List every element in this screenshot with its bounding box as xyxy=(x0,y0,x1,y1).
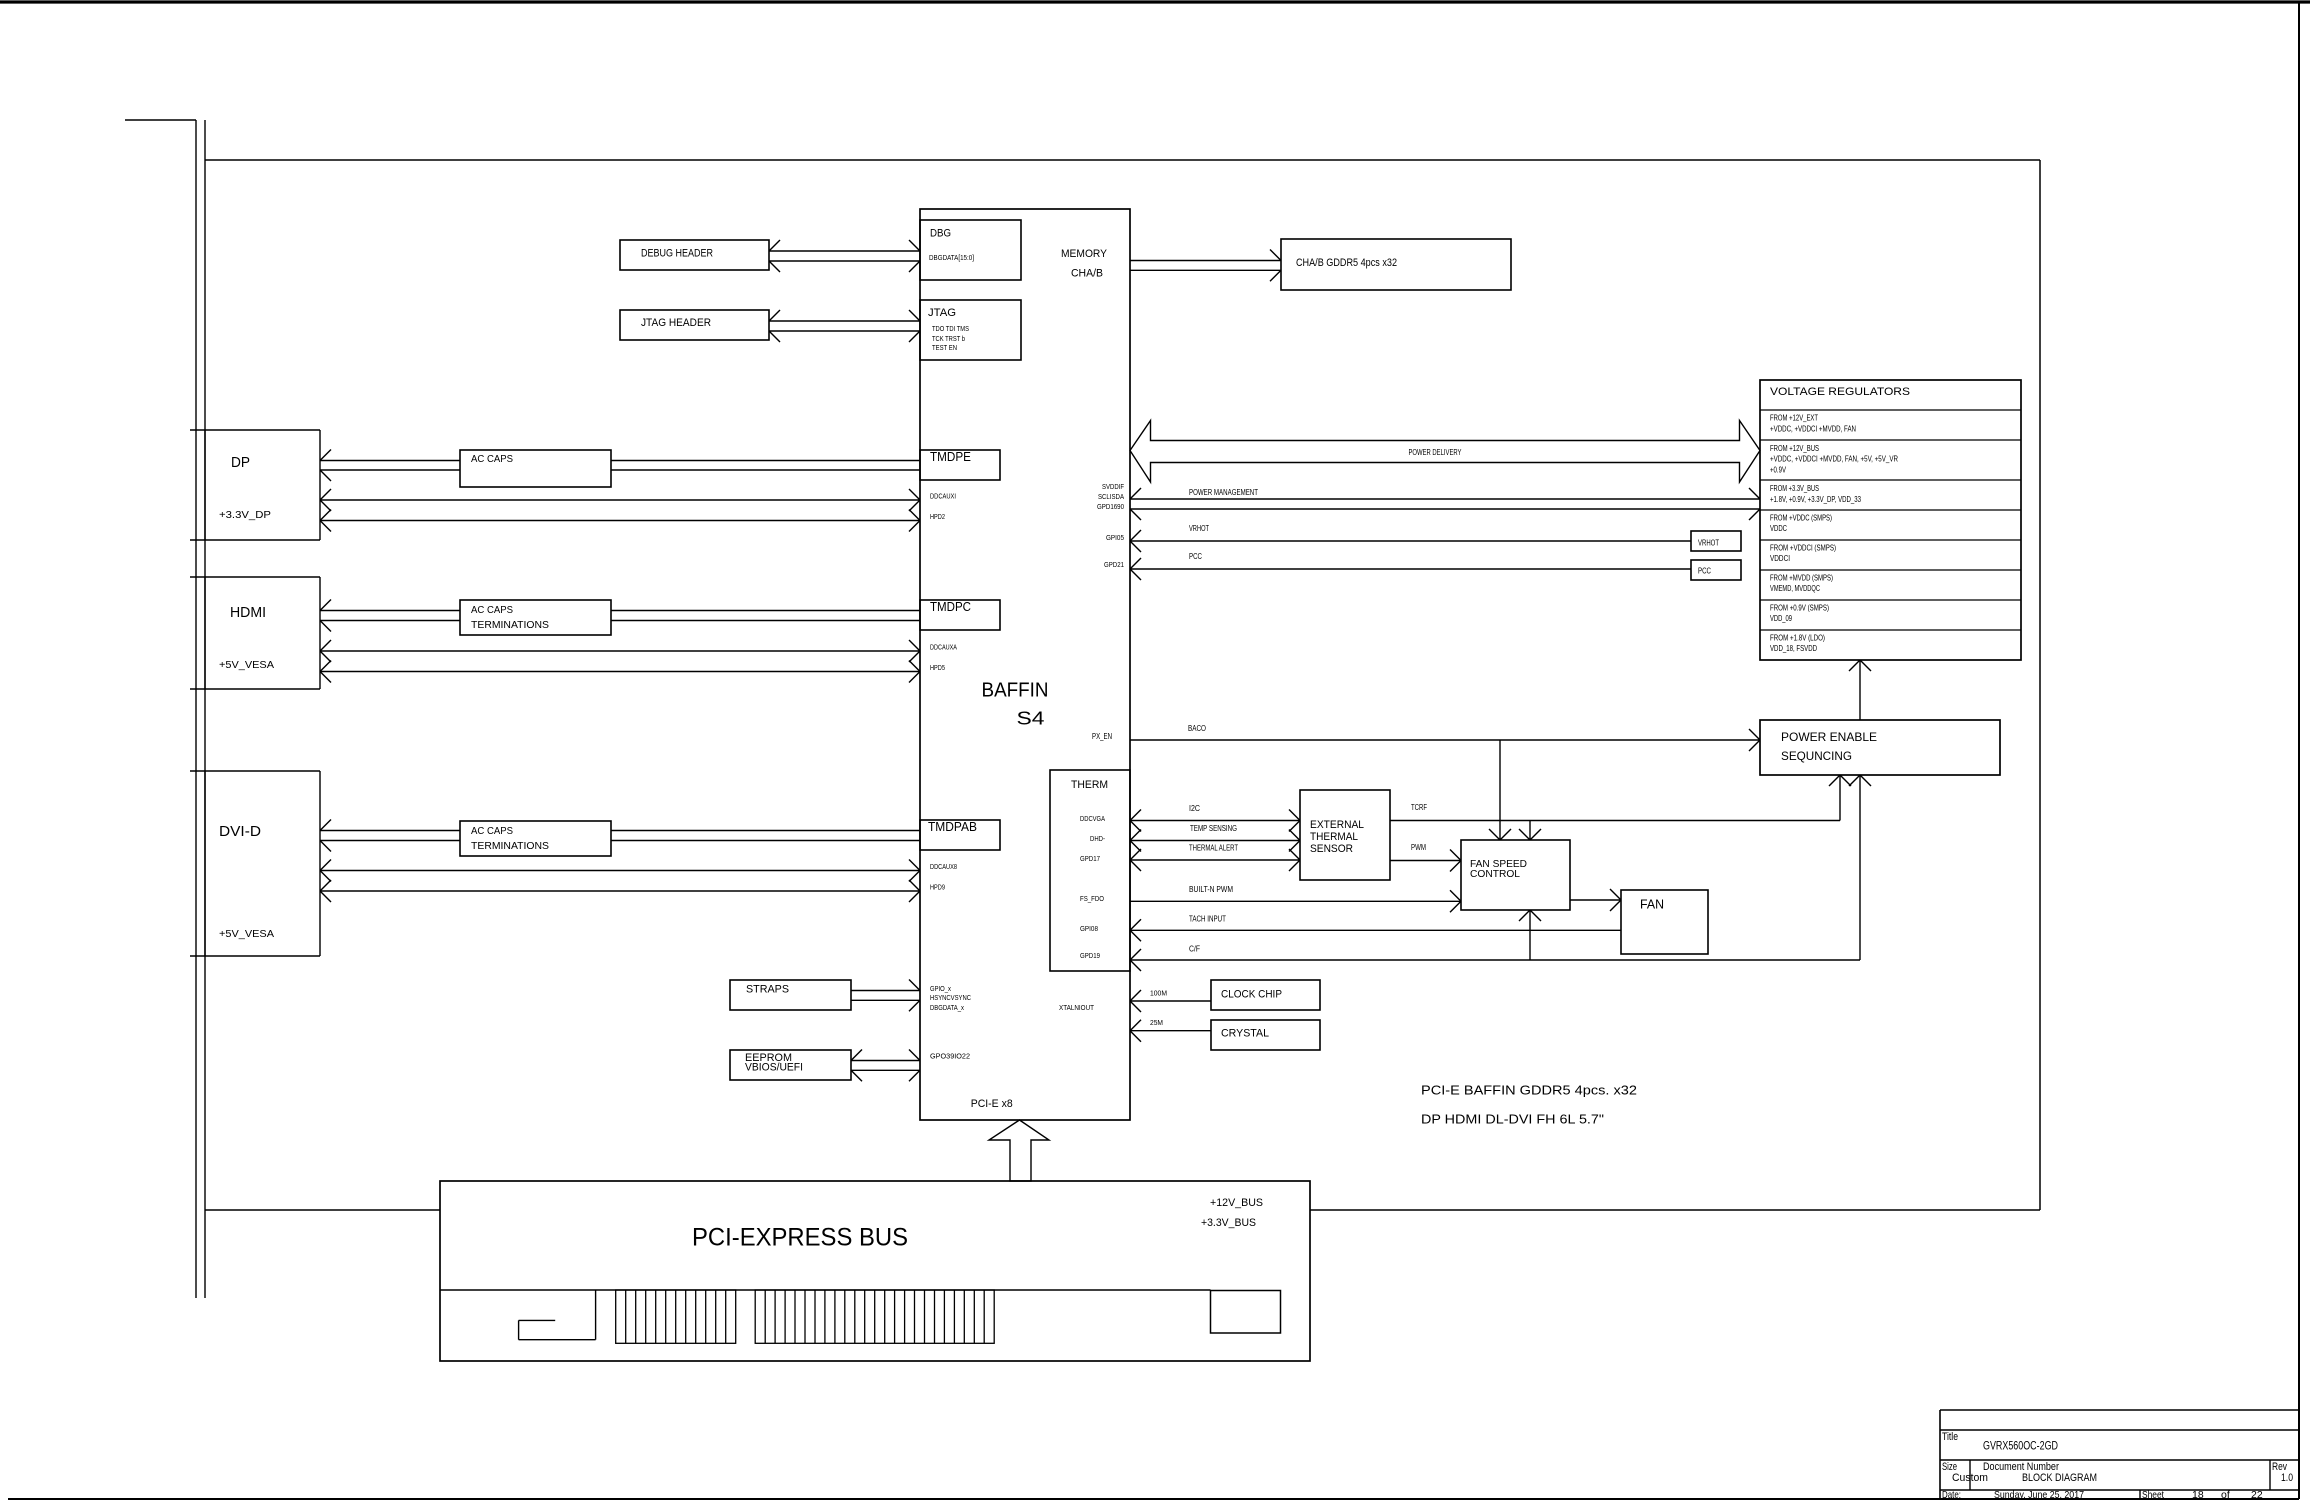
svg-text:TMDPE: TMDPE xyxy=(930,450,971,464)
block PCC xyxy=(1691,560,1741,580)
svg-text:CONTROL: CONTROL xyxy=(1470,869,1520,880)
THERM pin GPIO8 xyxy=(1080,926,1098,933)
svg-text:S4: S4 xyxy=(1017,709,1045,729)
svg-text:THERM: THERM xyxy=(1071,779,1108,791)
wire 100M clock xyxy=(1130,990,1211,1012)
PCI-E power tab box xyxy=(1211,1291,1281,1334)
svg-text:JTAG HEADER: JTAG HEADER xyxy=(641,317,711,329)
wire HDMI TMDS pair xyxy=(320,600,920,632)
svg-text:GPD1690: GPD1690 xyxy=(1097,504,1124,511)
wire JTAG bus xyxy=(769,310,920,342)
svg-text:FROM +0.9V (SMPS): FROM +0.9V (SMPS) xyxy=(1770,604,1829,613)
svg-text:DP: DP xyxy=(231,454,250,471)
document number field xyxy=(1983,1461,2097,1484)
bracket rail outer xyxy=(195,120,197,1298)
svg-text:GPD19: GPD19 xyxy=(1080,953,1100,960)
svg-text:CHA/B GDDR5 4pcs x32: CHA/B GDDR5 4pcs x32 xyxy=(1296,257,1397,269)
svg-text:HPD9: HPD9 xyxy=(930,885,945,892)
wire memory bus CHA/B xyxy=(1130,250,1281,282)
svg-text:TERMINATIONS: TERMINATIONS xyxy=(471,620,549,631)
svg-text:+0.9V: +0.9V xyxy=(1770,465,1786,474)
svg-text:Sunday, June 25, 2017: Sunday, June 25, 2017 xyxy=(1994,1489,2084,1501)
svg-text:of: of xyxy=(2221,1489,2230,1501)
svg-text:VBIOS/UEFI: VBIOS/UEFI xyxy=(745,1062,803,1074)
wire C/F branch to fan control xyxy=(1519,910,1541,960)
svg-text:Title: Title xyxy=(1942,1431,1958,1443)
svg-text:HPD5: HPD5 xyxy=(930,665,945,672)
svg-text:GVRX560OC-2GD: GVRX560OC-2GD xyxy=(1983,1441,2058,1453)
bracket top tick xyxy=(125,119,196,121)
bracket rail inner xyxy=(204,120,206,1298)
svg-text:PX_EN: PX_EN xyxy=(1092,732,1112,741)
svg-text:FROM +1.8V (LDO): FROM +1.8V (LDO) xyxy=(1770,634,1825,643)
wire DEBUG bus xyxy=(769,240,920,272)
connector J1 DP xyxy=(190,430,320,540)
svg-text:POWER ENABLE: POWER ENABLE xyxy=(1781,730,1877,744)
svg-text:+1.8V, +0.9V, +3.3V_DP, VDD_33: +1.8V, +0.9V, +3.3V_DP, VDD_33 xyxy=(1770,495,1861,504)
svg-text:PCI-E BAFFIN GDDR5 4pcs. x32: PCI-E BAFFIN GDDR5 4pcs. x32 xyxy=(1421,1083,1637,1097)
THERM pin FS_FDO xyxy=(1080,896,1104,903)
label PCI-E x8 xyxy=(971,1098,1013,1110)
svg-text:CHA/B: CHA/B xyxy=(1071,268,1103,280)
main frame bottom right segment xyxy=(1310,1209,2040,1211)
main frame top xyxy=(205,159,2040,161)
svg-text:EXTERNAL: EXTERNAL xyxy=(1310,819,1364,831)
PCI-E connector fingers group 1 xyxy=(616,1290,736,1343)
svg-text:STRAPS: STRAPS xyxy=(746,984,789,996)
block CLOCK CHIP xyxy=(1211,980,1320,1010)
wire DP DDCAUXI xyxy=(320,489,920,511)
svg-text:HSYNCVSYNC: HSYNCVSYNC xyxy=(930,995,971,1002)
block AC CAPS TERMINATIONS (HDMI) xyxy=(460,600,611,635)
svg-text:+3.3V_BUS: +3.3V_BUS xyxy=(1201,1217,1256,1229)
block CRYSTAL xyxy=(1211,1020,1320,1050)
svg-text:Sheet: Sheet xyxy=(2142,1489,2164,1501)
pins DDCAUX8 HPD9 xyxy=(930,864,957,892)
wire STRAPS bus xyxy=(851,980,920,1012)
PCI-E connector fingers group 2 xyxy=(755,1290,994,1343)
svg-text:+5V_VESA: +5V_VESA xyxy=(219,660,274,671)
svg-text:FROM +VDDCI (SMPS): FROM +VDDCI (SMPS) xyxy=(1770,544,1836,553)
svg-text:Date:: Date: xyxy=(1942,1489,1961,1501)
svg-text:PCI-E x8: PCI-E x8 xyxy=(971,1098,1013,1110)
svg-text:GPI05: GPI05 xyxy=(1106,535,1124,542)
wire fan drive xyxy=(1570,889,1621,911)
block FAN SPEED CONTROL xyxy=(1461,840,1570,910)
port DBG xyxy=(920,220,1021,280)
block EEPROM VBIOS/UEFI xyxy=(730,1050,851,1080)
svg-text:GPD21: GPD21 xyxy=(1104,562,1124,569)
svg-text:PCC: PCC xyxy=(1189,552,1202,561)
pins DDCAUXI HPD2 xyxy=(930,494,956,522)
svg-text:DDCVGA: DDCVGA xyxy=(1080,816,1105,823)
pin GPIO5 xyxy=(1106,535,1124,542)
svg-text:DBG: DBG xyxy=(930,228,951,240)
wire DP HPD2 xyxy=(320,510,920,532)
svg-text:TERMINATIONS: TERMINATIONS xyxy=(471,841,549,852)
svg-text:DEBUG HEADER: DEBUG HEADER xyxy=(641,248,713,260)
label MEMORY CHA/B xyxy=(1061,248,1108,280)
title value GVRX560OC-2GD xyxy=(1983,1441,2058,1453)
svg-text:VDDCI: VDDCI xyxy=(1770,554,1790,563)
pin PX_EN xyxy=(1092,732,1112,741)
svg-text:VMEMD, MVDDQC: VMEMD, MVDDQC xyxy=(1770,584,1820,593)
svg-text:TDO TDI TMS: TDO TDI TMS xyxy=(932,326,969,333)
wire I2C xyxy=(1130,804,1300,832)
svg-text:TCK TRST b: TCK TRST b xyxy=(932,336,965,343)
svg-text:POWER DELIVERY: POWER DELIVERY xyxy=(1409,448,1462,457)
svg-text:HDMI: HDMI xyxy=(230,604,266,621)
sheet right border xyxy=(2298,1,2300,1499)
pins SVDDIF SCL/SDA GPIO1690 xyxy=(1097,484,1124,511)
svg-text:DDCAUX8: DDCAUX8 xyxy=(930,864,957,871)
block AC CAPS (DP) xyxy=(460,450,611,487)
note DP HDMI DL-DVI xyxy=(1421,1113,1604,1127)
svg-text:THERMAL ALERT: THERMAL ALERT xyxy=(1189,844,1238,853)
wire C/F to PES xyxy=(1130,775,1871,971)
svg-text:TEST EN: TEST EN xyxy=(932,345,957,352)
pin XTALIN/OUT xyxy=(1059,1005,1095,1012)
bus arrow POWER DELIVERY xyxy=(1130,421,1760,483)
wire BACO xyxy=(1130,724,1760,751)
block VOLTAGE REGULATORS xyxy=(1760,380,2021,660)
svg-text:Custom: Custom xyxy=(1952,1472,1988,1484)
port TMDPE xyxy=(920,450,1000,480)
wire HDMI DDCAUXA xyxy=(320,640,920,662)
svg-text:PCI-EXPRESS BUS: PCI-EXPRESS BUS xyxy=(692,1223,908,1251)
svg-text:VRHOT: VRHOT xyxy=(1189,524,1209,533)
svg-text:100M: 100M xyxy=(1150,991,1167,998)
pins strap GPIO xyxy=(930,986,971,1012)
VOLTAGE REGULATORS row labels xyxy=(1770,414,1898,654)
wire 25M crystal xyxy=(1130,1020,1211,1042)
wire THERMAL ALERT xyxy=(1130,844,1300,872)
svg-text:DDCAUXA: DDCAUXA xyxy=(930,645,957,652)
svg-text:18: 18 xyxy=(2192,1489,2204,1501)
svg-text:FS_FDO: FS_FDO xyxy=(1080,896,1104,903)
svg-text:DBGDATA[15:0]: DBGDATA[15:0] xyxy=(929,255,974,262)
wire DVI HPD9 xyxy=(320,880,920,902)
block STRAPS xyxy=(730,980,851,1010)
wire TCRIT branch to fan control xyxy=(1519,821,1541,841)
rev field xyxy=(2272,1461,2293,1484)
port THERM xyxy=(1050,770,1130,971)
port TMDPAB xyxy=(920,820,1000,850)
svg-text:THERMAL: THERMAL xyxy=(1310,831,1358,843)
svg-text:DVI-D: DVI-D xyxy=(219,823,261,840)
svg-text:CLOCK CHIP: CLOCK CHIP xyxy=(1221,988,1282,1000)
wire TACH INPUT xyxy=(1130,915,1621,942)
svg-text:GPD17: GPD17 xyxy=(1080,856,1100,863)
svg-text:XTALNIOUT: XTALNIOUT xyxy=(1059,1005,1095,1012)
svg-text:VRHOT: VRHOT xyxy=(1698,539,1719,548)
svg-text:1.0: 1.0 xyxy=(2281,1472,2293,1484)
svg-text:GPO39IO22: GPO39IO22 xyxy=(930,1054,970,1061)
svg-text:FROM +12V_BUS: FROM +12V_BUS xyxy=(1770,444,1819,453)
wire TEMP SENSING xyxy=(1130,824,1300,852)
size field xyxy=(1942,1461,1988,1484)
block VRHOT xyxy=(1691,531,1741,551)
svg-text:DHD-: DHD- xyxy=(1090,836,1106,843)
svg-text:FROM +12V_EXT: FROM +12V_EXT xyxy=(1770,414,1818,423)
svg-text:AC CAPS: AC CAPS xyxy=(471,454,513,465)
svg-text:+5V_VESA: +5V_VESA xyxy=(219,929,274,940)
svg-text:GPIO_x: GPIO_x xyxy=(930,986,951,993)
svg-text:TMDPAB: TMDPAB xyxy=(928,820,977,834)
svg-text:DP HDMI DL-DVI FH 6L 5.7": DP HDMI DL-DVI FH 6L 5.7" xyxy=(1421,1113,1604,1127)
svg-text:BACO: BACO xyxy=(1188,724,1206,733)
svg-text:SENSOR: SENSOR xyxy=(1310,843,1353,855)
wire BUILT-IN PWM xyxy=(1130,885,1461,912)
connector J2 HDMI xyxy=(190,577,320,689)
pins DDCAUXA HPD5 xyxy=(930,645,957,673)
THERM pins DDCVGA DHD GPIO17 xyxy=(1080,816,1106,863)
svg-text:FROM +VDDC (SMPS): FROM +VDDC (SMPS) xyxy=(1770,514,1832,523)
sheet top border xyxy=(0,0,2310,3)
wire PWM xyxy=(1390,843,1461,872)
svg-text:CRYSTAL: CRYSTAL xyxy=(1221,1028,1269,1040)
svg-text:I2C: I2C xyxy=(1189,804,1200,813)
svg-text:MEMORY: MEMORY xyxy=(1061,248,1108,260)
svg-text:PWM: PWM xyxy=(1411,843,1426,852)
svg-text:PCC: PCC xyxy=(1698,567,1711,576)
svg-text:+VDDC, +VDDCI +MVDD, FAN: +VDDC, +VDDCI +MVDD, FAN xyxy=(1770,425,1856,434)
PCI-E bus divider xyxy=(440,1289,1211,1291)
wire DVI DDCAUX8 xyxy=(320,860,920,882)
svg-text:DDCAUXI: DDCAUXI xyxy=(930,494,956,501)
svg-text:FROM +MVDD (SMPS): FROM +MVDD (SMPS) xyxy=(1770,574,1833,583)
wire DVI TMDS pair xyxy=(320,820,920,852)
block PCI-EXPRESS BUS xyxy=(440,1181,1310,1361)
THERM pin GPIO19 xyxy=(1080,953,1100,960)
block EXTERNAL THERMAL SENSOR xyxy=(1300,790,1390,880)
svg-text:BUILT-N PWM: BUILT-N PWM xyxy=(1189,885,1233,894)
block CHA/B GDDR5 4pcs x32 xyxy=(1281,239,1511,290)
svg-text:TCRF: TCRF xyxy=(1411,803,1427,812)
block FAN xyxy=(1621,890,1708,954)
svg-text:JTAG: JTAG xyxy=(928,307,956,319)
connector J3 DVI-D xyxy=(190,771,320,956)
svg-text:SEQUNCING: SEQUNCING xyxy=(1781,749,1852,763)
title block frame xyxy=(1940,1410,2299,1499)
wire VRHOT xyxy=(1130,524,1691,552)
svg-text:DBGDATA_x: DBGDATA_x xyxy=(930,1005,964,1012)
wire DP TMDS pair xyxy=(320,450,920,482)
svg-text:VDD_09: VDD_09 xyxy=(1770,614,1792,623)
port TMDPC xyxy=(920,600,1000,630)
svg-text:VDDC: VDDC xyxy=(1770,524,1787,533)
svg-text:VOLTAGE REGULATORS: VOLTAGE REGULATORS xyxy=(1770,386,1910,398)
svg-text:C/F: C/F xyxy=(1189,945,1200,954)
svg-text:HPD2: HPD2 xyxy=(930,514,945,521)
GPU U1 BAFFIN S4 xyxy=(920,209,1130,1120)
svg-text:BAFFIN: BAFFIN xyxy=(982,679,1049,701)
wire EEPROM bus xyxy=(851,1050,920,1082)
block JTAG HEADER xyxy=(620,310,769,340)
svg-text:25M: 25M xyxy=(1150,1020,1163,1027)
svg-text:+3.3V_DP: +3.3V_DP xyxy=(219,510,271,521)
svg-text:SCLISDA: SCLISDA xyxy=(1098,494,1124,501)
sheet field xyxy=(2142,1489,2263,1501)
note PCI-E BAFFIN GDDR5 xyxy=(1421,1083,1637,1097)
wire PCC xyxy=(1130,552,1691,580)
block DEBUG HEADER xyxy=(620,240,769,270)
sheet bottom border xyxy=(8,1498,2299,1500)
svg-text:+VDDC, +VDDCI +MVDD, FAN, +5V,: +VDDC, +VDDCI +MVDD, FAN, +5V, +5V_VR xyxy=(1770,455,1898,464)
PCI-E connector key notch xyxy=(519,1290,596,1340)
svg-text:TACH INPUT: TACH INPUT xyxy=(1189,915,1226,924)
pin GPIO21 xyxy=(1104,562,1124,569)
block POWER ENABLE SEQUNCING xyxy=(1760,720,2000,775)
block AC CAPS TERMINATIONS (DVI) xyxy=(460,821,611,856)
title label xyxy=(1942,1431,1958,1443)
main frame bottom left segment xyxy=(205,1209,440,1211)
wire HDMI HPD5 xyxy=(320,661,920,683)
svg-text:+12V_BUS: +12V_BUS xyxy=(1210,1197,1263,1209)
wire TCRIT to PES xyxy=(1390,775,1851,821)
pin GPO39/IO22 xyxy=(930,1054,970,1061)
bus arrow PCI-E x8 to GPU xyxy=(989,1120,1049,1181)
svg-text:AC CAPS: AC CAPS xyxy=(471,605,513,616)
wire POWER MANAGEMENT pair xyxy=(1130,488,1760,520)
svg-text:SVDDIF: SVDDIF xyxy=(1102,484,1124,491)
wire PES to voltage regulators xyxy=(1849,660,1871,720)
svg-text:TEMP SENSING: TEMP SENSING xyxy=(1190,824,1237,833)
svg-text:FAN: FAN xyxy=(1640,897,1664,912)
svg-text:FROM +3.3V_BUS: FROM +3.3V_BUS xyxy=(1770,484,1819,493)
wire BACO branch to fan control xyxy=(1489,740,1511,840)
svg-text:AC CAPS: AC CAPS xyxy=(471,826,513,837)
svg-text:TMDPC: TMDPC xyxy=(930,600,971,614)
svg-text:BLOCK DIAGRAM: BLOCK DIAGRAM xyxy=(2022,1472,2097,1484)
svg-text:VDD_18, FSVDD: VDD_18, FSVDD xyxy=(1770,644,1817,653)
date field xyxy=(1942,1489,2084,1501)
main frame right xyxy=(2039,160,2041,1210)
svg-text:POWER MANAGEMENT: POWER MANAGEMENT xyxy=(1189,488,1258,497)
port JTAG xyxy=(920,300,1021,360)
svg-text:GPI08: GPI08 xyxy=(1080,926,1098,933)
svg-text:22: 22 xyxy=(2251,1489,2263,1501)
